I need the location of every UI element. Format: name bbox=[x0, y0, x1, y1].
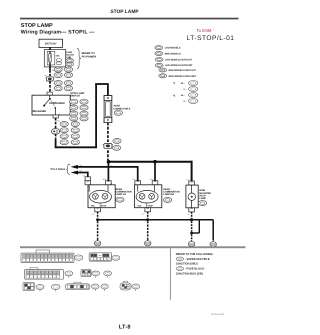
connector id ovals bbox=[91, 284, 99, 291]
svg-text:LAMP LH: LAMP LH bbox=[116, 193, 127, 196]
wire bus to rear lamp RH stop pin bbox=[154, 162, 156, 181]
note *1 bbox=[173, 81, 198, 86]
svg-text:RHD MODELS WITH M/T: RHD MODELS WITH M/T bbox=[169, 75, 197, 78]
svg-text:RHD MODELS WITH A/T: RHD MODELS WITH A/T bbox=[169, 69, 197, 72]
svg-text:4 :: 4 : bbox=[183, 100, 186, 103]
ground B bbox=[188, 240, 195, 247]
joint connector-2 label bbox=[113, 105, 131, 116]
inline connector M bbox=[52, 129, 60, 134]
connector id oval bbox=[112, 255, 120, 260]
svg-text:8D :: 8D : bbox=[181, 82, 185, 85]
svg-text:LT-STOP/L-01: LT-STOP/L-01 bbox=[187, 35, 235, 42]
svg-text:RHD MODELS: RHD MODELS bbox=[165, 53, 181, 56]
rear combination lamp RH bbox=[135, 181, 162, 212]
model marker ovals (lower group) bbox=[60, 122, 68, 127]
connector face M33 bbox=[21, 250, 74, 263]
rear combination lamp RH label bbox=[163, 188, 180, 202]
svg-text:LT-8: LT-8 bbox=[119, 325, 131, 331]
wire color labels bbox=[52, 69, 190, 216]
connector id oval bbox=[132, 284, 140, 291]
svg-text:R/L: R/L bbox=[79, 170, 82, 173]
wire battery to fuse block bbox=[49, 47, 51, 50]
svg-text:STOP: STOP bbox=[101, 205, 107, 208]
svg-text:Wiring Diagram— STOP/L —: Wiring Diagram— STOP/L — bbox=[21, 29, 95, 35]
svg-text:1: 1 bbox=[53, 90, 54, 93]
connector face M bbox=[25, 268, 64, 280]
connector face B small bbox=[23, 282, 34, 290]
svg-text:JUNCTION BOX (J/B): JUNCTION BOX (J/B) bbox=[176, 272, 203, 275]
ground wiring bbox=[97, 212, 99, 218]
connector id oval bbox=[75, 255, 83, 260]
fuse 10A bbox=[48, 54, 51, 62]
svg-text:LAMP: LAMP bbox=[199, 197, 206, 200]
svg-text:LHD MODELS: LHD MODELS bbox=[165, 47, 181, 50]
node: stop feed bus bbox=[109, 161, 192, 163]
svg-text:R/L: R/L bbox=[133, 178, 136, 181]
rear combination lamp LH label bbox=[116, 188, 133, 202]
connector id oval bbox=[65, 271, 73, 278]
ground E bbox=[94, 239, 101, 246]
svg-text:- SUPER MULTIPLE: - SUPER MULTIPLE bbox=[185, 258, 210, 261]
wire tail feed upper bbox=[77, 166, 137, 168]
svg-text:8: 8 bbox=[110, 124, 111, 127]
svg-text:8D :: 8D : bbox=[181, 94, 185, 97]
pin numbers bbox=[45, 74, 143, 216]
connector face R round bbox=[120, 281, 131, 290]
joint connector-2 bbox=[104, 96, 112, 123]
fuse block pin ovals bbox=[56, 59, 61, 62]
wire bus to high mounted stop lamp bbox=[191, 161, 193, 182]
junction dot B bbox=[153, 160, 157, 164]
svg-text:TO LT-TAIL/L: TO LT-TAIL/L bbox=[50, 168, 66, 171]
refer-to box border bbox=[169, 248, 171, 300]
svg-text:43: 43 bbox=[110, 182, 112, 185]
high mounted stop lamp label bbox=[198, 189, 211, 205]
connector face T strip bbox=[65, 282, 90, 289]
svg-text:COMBINATION: COMBINATION bbox=[116, 191, 133, 194]
legend row 6: RHD MODELS WITH M/T bbox=[159, 74, 197, 78]
svg-text:10A: 10A bbox=[56, 55, 60, 58]
svg-text:MOUNTED: MOUNTED bbox=[199, 192, 211, 195]
svg-text:STOP: STOP bbox=[147, 205, 153, 208]
svg-text:JUNCTION (SMJ): JUNCTION (SMJ) bbox=[176, 263, 198, 266]
svg-text:To ESM: To ESM bbox=[196, 28, 211, 33]
wire fuse to switch bbox=[49, 65, 51, 71]
legend row 4: LHD MODELS WITH M/T bbox=[155, 63, 193, 67]
ground B bbox=[210, 240, 217, 247]
wire bus to rear lamp LH stop pin bbox=[107, 162, 109, 181]
connector face E small bbox=[81, 269, 91, 276]
svg-text:STOP LAMP: STOP LAMP bbox=[110, 9, 139, 15]
brace to tail label bbox=[66, 164, 70, 174]
refer to PG-POWER bbox=[82, 52, 97, 58]
header rule bbox=[20, 18, 239, 20]
connector id ovals bbox=[36, 284, 44, 291]
svg-text:REFER TO THE FOLLOWING:: REFER TO THE FOLLOWING: bbox=[176, 253, 214, 256]
wire switch output bbox=[55, 118, 57, 129]
svg-text:COMBINATION: COMBINATION bbox=[163, 191, 180, 194]
rear combination lamp LH bbox=[85, 181, 115, 212]
fuse block label bbox=[66, 51, 74, 59]
svg-text:4: 4 bbox=[103, 178, 104, 181]
svg-text:LAMP RH: LAMP RH bbox=[163, 193, 174, 196]
svg-text:RELEASED: RELEASED bbox=[33, 110, 47, 113]
ground E bbox=[144, 239, 151, 246]
svg-text:STOP LAMP: STOP LAMP bbox=[21, 23, 53, 29]
legend row 3: LHD MODELS WITH A/T bbox=[155, 58, 192, 62]
svg-text:2: 2 bbox=[142, 213, 143, 216]
svg-text:LHD MODELS WITH M/T: LHD MODELS WITH M/T bbox=[165, 64, 193, 67]
svg-text:R/L: R/L bbox=[83, 174, 86, 177]
separator rule bbox=[20, 246, 246, 248]
svg-text:1: 1 bbox=[110, 93, 111, 96]
svg-text:FUSE: FUSE bbox=[66, 51, 72, 54]
svg-text:4 :: 4 : bbox=[183, 88, 186, 91]
high mounted stop lamp bbox=[186, 181, 198, 212]
svg-text:2: 2 bbox=[59, 113, 60, 116]
legend row 1: LHD MODELS bbox=[155, 46, 181, 50]
ground bus bbox=[98, 219, 214, 221]
legend row 5: RHD MODELS WITH A/T bbox=[159, 68, 197, 72]
note *2 bbox=[173, 93, 198, 98]
connector face E bbox=[89, 253, 111, 261]
to LT-TAIL/L arrows bbox=[71, 165, 78, 175]
svg-text:- FUSE BLOCK-: - FUSE BLOCK- bbox=[185, 268, 205, 271]
connector id ovals bbox=[92, 271, 100, 278]
legend row 2: RHD MODELS bbox=[155, 52, 181, 56]
connector on tail feed bbox=[85, 177, 90, 181]
stop lamp switch label bbox=[70, 92, 85, 98]
svg-text:BLOCK: BLOCK bbox=[66, 54, 74, 57]
svg-text:SWITCH: SWITCH bbox=[70, 95, 80, 98]
model marker ovals (upper group) bbox=[54, 67, 62, 72]
battery bbox=[39, 39, 63, 47]
svg-text:STOP: STOP bbox=[199, 194, 206, 197]
fuse block (J/B) bbox=[44, 50, 65, 67]
refer-to notes bbox=[176, 253, 214, 275]
svg-text:LHD MODELS WITH A/T: LHD MODELS WITH A/T bbox=[165, 58, 193, 61]
junction dot A bbox=[107, 160, 111, 164]
stop lamp switch bbox=[32, 92, 70, 118]
inline connector E bbox=[45, 77, 54, 81]
svg-text:2: 2 bbox=[92, 213, 93, 216]
svg-text:1: 1 bbox=[52, 89, 53, 92]
svg-text:BATTERY: BATTERY bbox=[45, 43, 57, 46]
wire run to joint connector bbox=[55, 146, 97, 148]
svg-text:REAR: REAR bbox=[163, 188, 170, 191]
svg-text:TAIL: TAIL bbox=[91, 205, 96, 208]
svg-text:R/L: R/L bbox=[79, 164, 82, 167]
model marker ovals (switch right group) bbox=[70, 99, 78, 104]
svg-text:CONNECTOR-2: CONNECTOR-2 bbox=[113, 108, 131, 111]
svg-text:DEPRESSED: DEPRESSED bbox=[49, 102, 65, 105]
svg-text:WKWA2930E: WKWA2930E bbox=[211, 313, 225, 316]
brace bbox=[77, 48, 81, 68]
wire tail feed lower bbox=[77, 172, 87, 174]
inline connector B bbox=[103, 143, 113, 148]
fuse block ref ovals bbox=[66, 59, 74, 63]
wire below joint connector bbox=[107, 123, 109, 142]
svg-text:JOINT: JOINT bbox=[113, 105, 120, 108]
svg-text:TAIL: TAIL bbox=[137, 205, 142, 208]
svg-text:REAR: REAR bbox=[116, 188, 123, 191]
svg-text:HIGH: HIGH bbox=[199, 189, 205, 192]
svg-text:PG-POWER: PG-POWER bbox=[82, 56, 97, 59]
